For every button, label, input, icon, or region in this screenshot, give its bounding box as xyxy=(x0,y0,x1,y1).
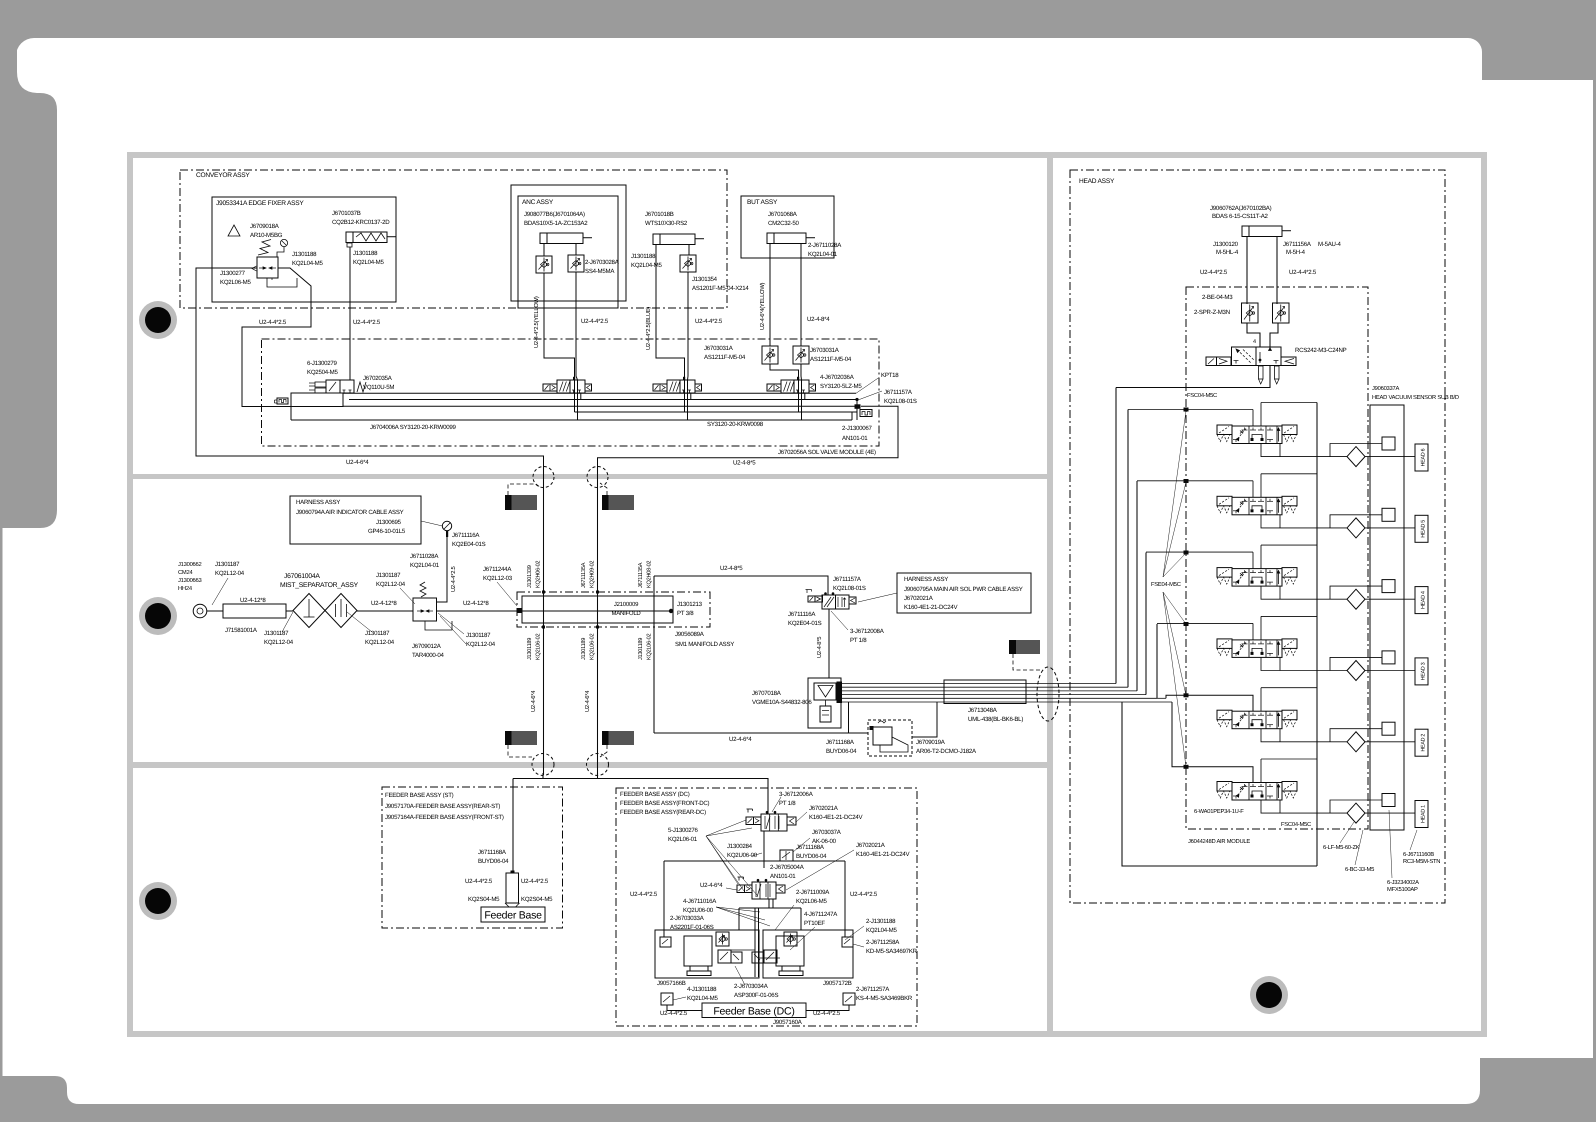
svg-text:J1300662: J1300662 xyxy=(178,561,201,568)
vacuum sensor square HEAD 2 xyxy=(1382,722,1395,735)
cylinder BDAS 6-15 xyxy=(1242,226,1282,237)
svg-text:J1301187: J1301187 xyxy=(466,632,491,639)
svg-text:J6701037B: J6701037B xyxy=(332,210,361,217)
muffler AN101 right xyxy=(860,410,872,417)
svg-text:3-J6712008A: 3-J6712008A xyxy=(850,628,885,635)
svg-text:J67061004A: J67061004A xyxy=(284,573,320,580)
punch hole xyxy=(139,301,177,339)
svg-text:GP46-10-01L5: GP46-10-01L5 xyxy=(368,528,406,535)
svg-text:J6704006A SY3120-20-KRW0099: J6704006A SY3120-20-KRW0099 xyxy=(370,424,456,431)
svg-text:6-J6711160B: 6-J6711160B xyxy=(1403,851,1434,858)
speed controller BE-04 left xyxy=(1242,303,1259,323)
svg-text:2-J6703028A: 2-J6703028A xyxy=(585,259,620,266)
svg-text:J1300695: J1300695 xyxy=(376,519,402,526)
svg-text:HEAD 4: HEAD 4 xyxy=(1421,591,1427,609)
svg-text:KQ2L04-M5: KQ2L04-M5 xyxy=(292,260,323,267)
wire edge fixer supply U2-4-6*4 xyxy=(196,268,544,467)
harness assy main air box xyxy=(897,573,1031,613)
union circle row1/row2 left xyxy=(533,467,554,488)
check valve diamond HEAD 4 xyxy=(1347,589,1365,609)
svg-text:PT 1/8: PT 1/8 xyxy=(850,637,867,644)
svg-text:RCS242-M3-C24NP: RCS242-M3-C24NP xyxy=(1295,347,1347,354)
speed controller BE-04 right xyxy=(1273,303,1290,323)
svg-text:SY3120-5LZ-M5: SY3120-5LZ-M5 xyxy=(820,383,862,390)
svg-text:KQ2L08-01S: KQ2L08-01S xyxy=(833,585,866,592)
svg-text:AR06-T2-DCMO-J182A: AR06-T2-DCMO-J182A xyxy=(916,748,977,755)
vacuum sensor square HEAD 5 xyxy=(1382,508,1395,521)
svg-text:J6711244A: J6711244A xyxy=(483,566,512,573)
svg-text:6-WA01PEP34-1U-F: 6-WA01PEP34-1U-F xyxy=(1194,808,1244,815)
svg-text:ASP300F-01-06S: ASP300F-01-06S xyxy=(734,992,778,999)
svg-text:KQ2L12-04: KQ2L12-04 xyxy=(264,639,294,646)
vacuum sensor square HEAD 3 xyxy=(1382,651,1395,664)
wire cylinder CQ2B12 down xyxy=(349,247,351,380)
svg-text:J6711135A: J6711135A xyxy=(638,562,644,588)
svg-text:J6703031A: J6703031A xyxy=(704,345,734,352)
svg-text:2-BE-04-M3: 2-BE-04-M3 xyxy=(1202,294,1233,301)
regulator J1300277 edge fixer xyxy=(257,257,278,278)
svg-text:U2-4-12*8: U2-4-12*8 xyxy=(371,600,397,607)
inner head dash-dot box xyxy=(1186,287,1368,829)
svg-text:J1301213: J1301213 xyxy=(677,601,703,608)
svg-text:J9053341A EDGE FIXER ASSY: J9053341A EDGE FIXER ASSY xyxy=(216,200,304,207)
hose x654 manifold down xyxy=(653,576,655,733)
vacuum sensor square HEAD 6 xyxy=(1382,437,1395,450)
svg-text:KS-4-M5-SA3469BKR: KS-4-M5-SA3469BKR xyxy=(856,995,913,1002)
machine box left J9057166B xyxy=(655,930,759,978)
svg-text:J1301188: J1301188 xyxy=(292,251,317,258)
tick marks at manifold crossings xyxy=(542,591,545,594)
connector marker row2 right xyxy=(1009,640,1016,654)
svg-text:2-J6711009A: 2-J6711009A xyxy=(796,889,830,896)
wire diamond to head box HEAD 5 xyxy=(1365,527,1415,529)
ANC assy outer box xyxy=(511,185,626,301)
air module supply risers from bundle xyxy=(1115,388,1117,684)
speed controller SS4 right xyxy=(568,255,584,272)
svg-text:HARNESS ASSY: HARNESS ASSY xyxy=(296,499,340,506)
svg-text:2-J6711028A: 2-J6711028A xyxy=(808,242,842,249)
svg-text:U2-4-4*2.5(YELLOW): U2-4-4*2.5(YELLOW) xyxy=(533,296,540,348)
air module valve station HEAD 6 xyxy=(1217,425,1232,435)
svg-text:J6702021A: J6702021A xyxy=(904,595,934,602)
svg-text:HEAD VACUUM SENSOR SUB B/D: HEAD VACUUM SENSOR SUB B/D xyxy=(1372,394,1459,401)
svg-text:6-LF-M5-60-ZK: 6-LF-M5-60-ZK xyxy=(1323,844,1360,851)
wire ANC right port through valve A xyxy=(575,246,577,255)
svg-text:J9056089A: J9056089A xyxy=(675,631,705,638)
svg-text:U2-4-4*2.5: U2-4-4*2.5 xyxy=(1289,269,1317,276)
bundle marker box xyxy=(944,680,1026,704)
svg-text:4-J6711247A: 4-J6711247A xyxy=(804,911,838,918)
svg-text:6-J3234002A: 6-J3234002A xyxy=(1387,879,1419,886)
svg-text:HEAD 6: HEAD 6 xyxy=(1421,448,1427,466)
head port box HEAD 3 xyxy=(1415,658,1428,685)
svg-text:J6711168A: J6711168A xyxy=(826,739,855,746)
connector marker row2 top left xyxy=(505,495,512,510)
svg-text:J6711116A: J6711116A xyxy=(452,532,480,539)
feeder base DC dashed box xyxy=(616,788,917,1026)
wire U2-4-8*5 manifold to valve xyxy=(654,576,828,595)
svg-text:U2-4-12*8: U2-4-12*8 xyxy=(240,597,266,604)
svg-text:HEAD 2: HEAD 2 xyxy=(1421,734,1427,752)
wire H2 feed xyxy=(1166,695,1253,711)
boundary tick marks xyxy=(1184,408,1189,412)
svg-text:CM24: CM24 xyxy=(178,569,193,576)
svg-text:KQ2H08-02: KQ2H08-02 xyxy=(647,561,653,588)
wire module output loop U2-4-8*5 xyxy=(598,406,899,467)
cylinder ANC BDAS10X5 xyxy=(540,233,583,244)
svg-text:SY3120-20-KRW0098: SY3120-20-KRW0098 xyxy=(707,421,764,428)
regulator J6709012A TAR4000 xyxy=(413,598,437,621)
svg-text:2-J1300067: 2-J1300067 xyxy=(842,425,873,432)
svg-text:J6711157A: J6711157A xyxy=(833,576,862,583)
feeder base DC box xyxy=(702,1003,806,1018)
svg-text:KQ2E04-01S: KQ2E04-01S xyxy=(452,541,486,548)
svg-text:J9057172B: J9057172B xyxy=(823,980,852,987)
wire gauge down to regulator xyxy=(446,531,448,537)
svg-text:BUYD06-04: BUYD06-04 xyxy=(478,858,509,865)
svg-text:KQ2L06-01: KQ2L06-01 xyxy=(668,836,698,843)
air module valve station HEAD 1 xyxy=(1217,782,1232,792)
wire WTS right port through valve B xyxy=(688,247,690,255)
svg-text:U2-4-4*2.5: U2-4-4*2.5 xyxy=(581,318,609,325)
svg-text:U2-4-6*4: U2-4-6*4 xyxy=(530,690,537,712)
svg-text:VQ110U-5M: VQ110U-5M xyxy=(363,384,394,391)
svg-text:FSC04-M5C: FSC04-M5C xyxy=(1187,392,1217,399)
svg-text:K160-4E1-21-DC24V: K160-4E1-21-DC24V xyxy=(809,814,864,821)
svg-text:U2-4-4*2.5: U2-4-4*2.5 xyxy=(259,319,287,326)
union ellipse at head divider xyxy=(1037,667,1059,721)
svg-text:3-J6712006A: 3-J6712006A xyxy=(779,791,814,798)
svg-text:J6702021A: J6702021A xyxy=(809,805,839,812)
outer dark margin right thin edge xyxy=(1593,80,1596,1058)
svg-text:KQ2L12-04: KQ2L12-04 xyxy=(365,639,395,646)
wire U2-4-6*4 ejector drain xyxy=(654,732,868,734)
callout fan 5-J1300276 xyxy=(706,820,746,836)
svg-text:K160-4E1-21-DC24V: K160-4E1-21-DC24V xyxy=(856,851,911,858)
svg-text:J6709019A: J6709019A xyxy=(916,739,946,746)
svg-text:6-BC-33-M5: 6-BC-33-M5 xyxy=(1345,866,1374,873)
svg-text:KQ2L04-M5: KQ2L04-M5 xyxy=(687,995,718,1002)
svg-text:CONVEYOR ASSY: CONVEYOR ASSY xyxy=(196,172,250,179)
outer dark margin top band xyxy=(0,0,1596,38)
bundle connector nub xyxy=(837,682,843,704)
cylinder WTS10X30 xyxy=(653,234,695,245)
head vacuum sensor board box xyxy=(1370,405,1404,830)
svg-text:UML-438(BL-BK6-BL): UML-438(BL-BK6-BL) xyxy=(968,716,1023,723)
svg-text:HEAD 5: HEAD 5 xyxy=(1421,520,1427,538)
svg-text:J6711168A: J6711168A xyxy=(478,849,507,856)
head assy dashed box xyxy=(1070,170,1445,903)
svg-text:KQ2L04-M5: KQ2L04-M5 xyxy=(353,259,384,266)
svg-text:J1300663: J1300663 xyxy=(178,577,201,584)
svg-text:HH24: HH24 xyxy=(178,585,193,592)
svg-text:J6703031A: J6703031A xyxy=(810,347,840,354)
svg-text:J1300284: J1300284 xyxy=(727,843,753,850)
wires station HEAD 6 xyxy=(1260,403,1262,427)
wire RCS output to supply riser xyxy=(1116,366,1270,388)
svg-text:KQ2S04-M5: KQ2S04-M5 xyxy=(521,896,553,903)
feeder base ST dashed box xyxy=(382,787,563,928)
air module valve station HEAD 4 xyxy=(1217,568,1232,578)
BUT assy box xyxy=(741,196,834,258)
svg-text:AN101-01: AN101-01 xyxy=(842,435,868,442)
svg-text:U2-4-4*2.5: U2-4-4*2.5 xyxy=(450,566,457,592)
edge fixer assy box J9053341A xyxy=(212,197,396,302)
fitting bottom right xyxy=(843,993,855,1005)
svg-text:J6709018A: J6709018A xyxy=(250,223,280,230)
wires controllers to RCS valve xyxy=(1247,323,1260,347)
svg-text:J908077B6(J6701064A): J908077B6(J6701064A) xyxy=(524,211,585,218)
regulator drain box xyxy=(267,278,297,287)
check valve diamond HEAD 6 xyxy=(1347,447,1365,467)
main feed line row2 xyxy=(207,610,223,612)
inlet plug rect J71581001A xyxy=(223,604,286,618)
frame vertical divider between left rows and HEAD column xyxy=(1047,158,1053,1031)
speed controller AS1211F left xyxy=(762,346,778,364)
wire diamond to head box HEAD 6 xyxy=(1365,456,1415,458)
svg-text:U2-4-4*2.5: U2-4-4*2.5 xyxy=(850,891,878,898)
svg-text:BDAS10X5-1A-ZC153A2: BDAS10X5-1A-ZC153A2 xyxy=(524,220,588,227)
svg-text:TAR4000-04: TAR4000-04 xyxy=(412,652,444,659)
svg-text:ANC ASSY: ANC ASSY xyxy=(522,199,554,206)
svg-text:J6711116A: J6711116A xyxy=(788,611,816,618)
svg-text:U2-4-8*5: U2-4-8*5 xyxy=(720,565,743,572)
svg-text:BDAS 6-15-CS11T-A2: BDAS 6-15-CS11T-A2 xyxy=(1212,213,1269,220)
svg-text:J2100009: J2100009 xyxy=(614,601,639,608)
svg-text:2-SPR-Z-M3N: 2-SPR-Z-M3N xyxy=(1194,309,1230,316)
svg-text:U2-4-4*2.5: U2-4-4*2.5 xyxy=(660,1010,688,1017)
wires station HEAD 4 xyxy=(1260,545,1262,569)
svg-text:MIST_SEPARATOR_ASSY: MIST_SEPARATOR_ASSY xyxy=(280,582,359,589)
svg-text:AR10-M5BG: AR10-M5BG xyxy=(250,232,283,239)
svg-text:J9060762A(J670102BA): J9060762A(J670102BA) xyxy=(1210,205,1272,212)
svg-text:J6709012A: J6709012A xyxy=(412,643,442,650)
wire H1 feed xyxy=(1172,702,1253,783)
svg-text:J6711157A: J6711157A xyxy=(884,389,913,396)
connector marker row2 bottom left xyxy=(505,731,512,745)
conveyor assy dashed box xyxy=(180,170,727,308)
module output bus xyxy=(1316,403,1318,867)
feed line to regulator xyxy=(357,610,413,612)
svg-text:BUYD06-04: BUYD06-04 xyxy=(826,748,857,755)
feed line regulator to manifold xyxy=(437,610,523,612)
svg-text:J6711028A: J6711028A xyxy=(410,553,439,560)
svg-text:SM1 MANIFOLD ASSY: SM1 MANIFOLD ASSY xyxy=(675,641,734,648)
svg-text:KQ2L06-02: KQ2L06-02 xyxy=(536,634,542,660)
svg-text:J9060337A: J9060337A xyxy=(1372,385,1399,392)
punch hole xyxy=(1250,976,1288,1014)
svg-text:U2-4-4*2.5: U2-4-4*2.5 xyxy=(695,318,723,325)
svg-text:AS1211F-M5-04: AS1211F-M5-04 xyxy=(810,356,852,363)
svg-text:U2-4-6*4: U2-4-6*4 xyxy=(700,882,723,889)
ST plug fitting xyxy=(506,873,519,903)
fitting KPT18 left xyxy=(277,398,288,404)
svg-text:J9057166B: J9057166B xyxy=(657,980,686,987)
svg-text:FEEDER BASE ASSY(FRONT-DC): FEEDER BASE ASSY(FRONT-DC) xyxy=(620,800,710,807)
svg-text:J6707018A: J6707018A xyxy=(752,690,782,697)
wire AR06 to bundle xyxy=(912,702,937,737)
svg-text:U2-4-4*2.5: U2-4-4*2.5 xyxy=(630,891,658,898)
vacuum sensor square HEAD 4 xyxy=(1382,580,1395,593)
svg-text:KQ2E04-01S: KQ2E04-01S xyxy=(788,620,822,627)
svg-text:PT 3/8: PT 3/8 xyxy=(677,610,694,617)
svg-text:KQ2L06-M5: KQ2L06-M5 xyxy=(796,898,827,905)
svg-text:J9057170A-FEEDER BASE ASSY(REA: J9057170A-FEEDER BASE ASSY(REAR-ST) xyxy=(385,803,500,810)
filter triangle J6709018A xyxy=(228,225,240,236)
svg-text:KQ2U06-00: KQ2U06-00 xyxy=(683,907,714,914)
head port box HEAD 6 xyxy=(1415,444,1428,471)
svg-text:CM2C32-50: CM2C32-50 xyxy=(768,220,799,227)
svg-text:KQ2S04-M5: KQ2S04-M5 xyxy=(468,896,500,903)
svg-text:J1301189: J1301189 xyxy=(527,638,533,660)
outer dark margin bottom band with left block and right block xyxy=(0,1058,1596,1122)
svg-text:J1301187: J1301187 xyxy=(376,572,401,579)
svg-text:KPT18: KPT18 xyxy=(881,372,899,379)
punch hole xyxy=(139,882,177,920)
wires station HEAD 3 xyxy=(1260,616,1262,640)
svg-text:J1300277: J1300277 xyxy=(220,270,246,277)
svg-text:J1301187: J1301187 xyxy=(365,630,390,637)
svg-text:U2-4-6*4: U2-4-6*4 xyxy=(584,690,591,712)
harness assy air indicator box xyxy=(290,496,421,544)
svg-text:MFX5100AP: MFX5100AP xyxy=(1387,886,1418,893)
wire valve1 down xyxy=(763,831,765,861)
solenoid valve station A SY3120 xyxy=(543,384,557,391)
svg-text:2-J6705004A: 2-J6705004A xyxy=(770,864,805,871)
svg-text:J71581001A: J71581001A xyxy=(225,627,258,634)
air module bottom supply loop xyxy=(1122,702,1317,866)
feeder base ST box xyxy=(481,907,545,922)
svg-text:FSC04-M5C: FSC04-M5C xyxy=(1281,821,1311,828)
svg-text:U2-4-6*4: U2-4-6*4 xyxy=(729,736,752,743)
fitting bottom left xyxy=(661,993,673,1005)
svg-text:4-J6702036A: 4-J6702036A xyxy=(820,374,855,381)
svg-text:KQ2L12-04: KQ2L12-04 xyxy=(215,570,245,577)
svg-text:HARNESS ASSY: HARNESS ASSY xyxy=(904,576,948,583)
svg-text:KQ2L06-02: KQ2L06-02 xyxy=(647,634,653,660)
SM1 manifold dash-dot box xyxy=(517,592,710,627)
hose line x543 row2 xyxy=(543,467,545,775)
svg-text:U2-4-4*2.5: U2-4-4*2.5 xyxy=(1200,269,1228,276)
svg-text:6-J1300279: 6-J1300279 xyxy=(307,360,338,367)
ANC assy inner box xyxy=(518,196,618,308)
valve K160 upper xyxy=(746,817,754,825)
head port box HEAD 4 xyxy=(1415,587,1428,614)
punch hole xyxy=(139,597,177,635)
svg-text:J6703037A: J6703037A xyxy=(812,829,842,836)
wires station HEAD 1 xyxy=(1260,759,1262,783)
valve J6711157A KQ2L08 xyxy=(808,596,815,602)
svg-text:J1300120: J1300120 xyxy=(1213,241,1239,248)
pressure gauge J6711028A xyxy=(442,521,451,530)
svg-text:U2-4-8*5: U2-4-8*5 xyxy=(816,637,823,658)
frame divider row2/row3 xyxy=(133,762,1047,768)
bundle lines in head area xyxy=(1062,683,1116,685)
hose line x597 row2 xyxy=(597,467,599,775)
svg-text:U2-4-4*2.5: U2-4-4*2.5 xyxy=(521,878,549,885)
svg-text:BUT ASSY: BUT ASSY xyxy=(747,199,778,206)
air module valve station HEAD 3 xyxy=(1217,639,1232,649)
svg-text:KQ2H06-02: KQ2H06-02 xyxy=(536,561,542,588)
svg-text:FSE04-M5C: FSE04-M5C xyxy=(1151,581,1181,588)
solenoid valve station B SY3120 xyxy=(653,384,667,391)
svg-text:KQ2L12-04: KQ2L12-04 xyxy=(466,641,496,648)
svg-text:J6701068A: J6701068A xyxy=(768,211,798,218)
mufflers under RCS valve xyxy=(1259,366,1264,379)
check valve diamond HEAD 1 xyxy=(1347,803,1365,823)
svg-text:J9060794A AIR INDICATOR CABLE: J9060794A AIR INDICATOR CABLE ASSY xyxy=(296,509,404,516)
filter regulator J6709019A AR06 box xyxy=(868,720,912,756)
svg-text:VGME10A-S44832-806: VGME10A-S44832-806 xyxy=(752,699,812,706)
check valve AK-06 xyxy=(780,850,793,861)
wires station HEAD 2 xyxy=(1260,688,1262,712)
svg-text:J1301187: J1301187 xyxy=(215,561,240,568)
svg-text:M-5HL-4: M-5HL-4 xyxy=(1216,249,1239,256)
page top-left rounded corner xyxy=(16,38,34,56)
svg-text:FEEDER BASE ASSY (DC): FEEDER BASE ASSY (DC) xyxy=(620,791,690,798)
union circle row2/row3 left xyxy=(532,754,554,776)
connector marker row2 top right xyxy=(602,495,609,510)
wire diamond to head box HEAD 4 xyxy=(1365,598,1415,600)
svg-text:J1301188: J1301188 xyxy=(631,253,656,260)
svg-text:J1301187: J1301187 xyxy=(264,630,289,637)
sol valve module dashed box xyxy=(262,339,880,446)
svg-text:SS4-M5MA: SS4-M5MA xyxy=(585,268,615,275)
svg-text:U2-4-4*2.5: U2-4-4*2.5 xyxy=(465,878,493,885)
svg-text:J9057160A: J9057160A xyxy=(773,1019,803,1026)
svg-text:U2-4-6*4(YELLOW): U2-4-6*4(YELLOW) xyxy=(759,282,766,330)
wire valve to ejector U2-4-8*5 xyxy=(828,609,830,678)
svg-text:KQ2L06-M5: KQ2L06-M5 xyxy=(220,279,251,286)
svg-text:KQ2L12-03: KQ2L12-03 xyxy=(483,575,513,582)
svg-text:2-J1301188: 2-J1301188 xyxy=(866,918,896,925)
svg-text:FEEDER BASE ASSY (ST): FEEDER BASE ASSY (ST) xyxy=(385,792,454,799)
svg-text:U2-4-8*5: U2-4-8*5 xyxy=(733,460,756,467)
svg-text:HEAD 3: HEAD 3 xyxy=(1421,662,1427,680)
svg-text:M-5AU-4: M-5AU-4 xyxy=(1318,241,1341,248)
svg-text:U2-4-6*4: U2-4-6*4 xyxy=(346,459,369,466)
wire edge fixer to manifold xyxy=(242,268,311,407)
svg-text:KQ2L04-01: KQ2L04-01 xyxy=(808,251,838,258)
svg-text:J6713048A: J6713048A xyxy=(968,707,998,714)
svg-text:J6044248D AIR MODULE: J6044248D AIR MODULE xyxy=(1188,838,1250,845)
svg-text:KQ2L04-01: KQ2L04-01 xyxy=(410,562,440,569)
svg-text:KQ2H09-02: KQ2H09-02 xyxy=(590,561,596,588)
machine box right J9057172B xyxy=(763,930,853,978)
wire row3 feed header xyxy=(513,773,768,814)
svg-text:Feeder Base: Feeder Base xyxy=(484,910,542,922)
svg-text:U2-4-8*4: U2-4-8*4 xyxy=(807,316,830,323)
svg-text:KQ2L04-M5: KQ2L04-M5 xyxy=(866,927,897,934)
wires cylinder to speed controllers xyxy=(1246,239,1248,304)
svg-text:4: 4 xyxy=(1253,339,1256,345)
svg-text:CQ2B12-KRC0137-2D: CQ2B12-KRC0137-2D xyxy=(332,219,390,226)
wire diamond to head box HEAD 2 xyxy=(1365,741,1415,743)
svg-text:HEAD 1: HEAD 1 xyxy=(1421,805,1427,823)
vacuum ejector J6707018A VGME10A xyxy=(808,678,841,728)
svg-text:KQ2L08-01S: KQ2L08-01S xyxy=(884,398,917,405)
wires station HEAD 5 xyxy=(1260,474,1262,498)
valve RCS242-M3-C24NP xyxy=(1232,347,1282,366)
check valve diamond HEAD 2 xyxy=(1347,732,1365,752)
wire ANC left port to valve A xyxy=(543,246,545,256)
mist separator diamond 1 xyxy=(293,594,325,628)
svg-text:K160-4E1-21-DC24V: K160-4E1-21-DC24V xyxy=(904,604,959,611)
svg-text:J6702056A SOL VALVE MODULE (4E: J6702056A SOL VALVE MODULE (4E) xyxy=(778,449,876,456)
mist separator diamond 2 xyxy=(325,594,357,628)
frame divider row1/row2 xyxy=(133,474,1047,479)
svg-text:WTS10X30-RS2: WTS10X30-RS2 xyxy=(645,220,688,227)
